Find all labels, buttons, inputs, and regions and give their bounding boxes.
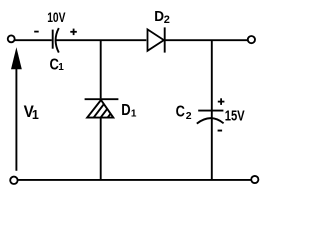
svg-text:15V: 15V (225, 107, 245, 124)
capacitor C2 minus sign (218, 130, 223, 132)
zener D1 hatch lines (91, 100, 121, 121)
capacitor C1 minus sign (34, 31, 39, 33)
diode D2 cathode bar (164, 27, 166, 52)
terminal bottom-left (10, 177, 17, 184)
svg-text:1: 1 (32, 108, 39, 122)
wire C1 to D2 (56, 39, 146, 41)
zener D1 triangle (87, 100, 113, 118)
svg-text:2: 2 (164, 14, 170, 26)
svg-text:1: 1 (131, 108, 137, 119)
svg-text:C: C (176, 104, 185, 121)
svg-text:D: D (121, 102, 130, 119)
zener D1 cathode bar (85, 98, 119, 100)
capacitor C1 left plate (52, 30, 54, 49)
svg-text:10V: 10V (47, 9, 66, 25)
wire top-left to C1 (15, 39, 52, 41)
bottom wire (18, 179, 251, 181)
terminal bottom-right (251, 176, 258, 183)
capacitor C1 plus sign (70, 31, 77, 33)
source V1 arrow shaft (15, 68, 17, 171)
wire C2 to bottom (211, 118, 213, 180)
wire down to zener D1 (100, 40, 102, 98)
capacitor C2 plus sign (218, 101, 225, 103)
wire D2 to top-right terminal (165, 39, 248, 41)
wire D1 to bottom (100, 118, 102, 180)
capacitor C2 top plate (198, 110, 223, 112)
wire down to C2 (211, 40, 213, 118)
svg-text:1: 1 (58, 62, 64, 73)
capacitor C2 curved plate (197, 118, 224, 123)
capacitor C1 curved plate (56, 28, 59, 52)
terminal top-right (248, 36, 255, 43)
terminal top-left (8, 35, 15, 42)
diode D2 triangle (148, 29, 164, 50)
svg-text:D: D (154, 8, 164, 25)
svg-text:2: 2 (186, 110, 192, 122)
source V1 arrow head (11, 47, 22, 69)
